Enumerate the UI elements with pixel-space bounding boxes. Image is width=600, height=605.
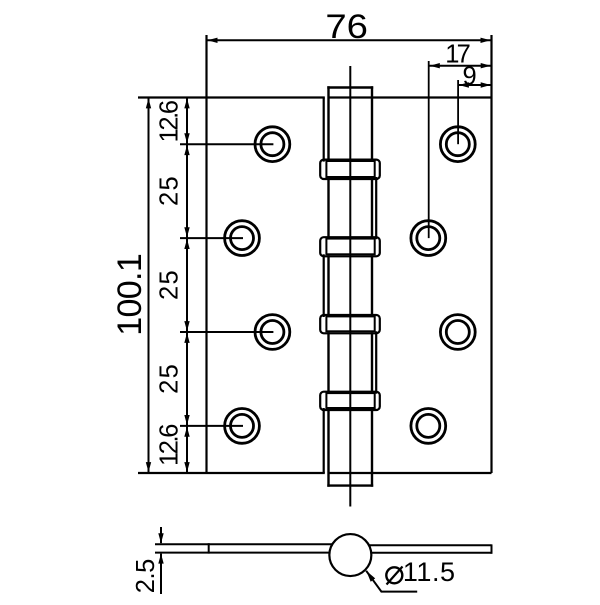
svg-text:9: 9 — [463, 62, 477, 90]
svg-text:25: 25 — [155, 364, 183, 394]
svg-text:11.5: 11.5 — [403, 557, 455, 587]
svg-text:2.5: 2.5 — [132, 559, 160, 594]
svg-text:12.6: 12.6 — [155, 424, 183, 467]
svg-text:76: 76 — [325, 8, 368, 46]
svg-text:100.1: 100.1 — [111, 253, 149, 336]
svg-text:25: 25 — [155, 176, 183, 206]
svg-text:25: 25 — [155, 270, 183, 300]
svg-text:12.6: 12.6 — [155, 100, 183, 143]
